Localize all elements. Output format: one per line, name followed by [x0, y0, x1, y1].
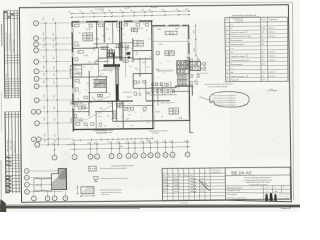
svg-text:09: 09	[79, 93, 81, 95]
svg-text:ГИП: ГИП	[163, 191, 166, 193]
title block left grid	[162, 167, 264, 202]
furniture marks upper rooms	[75, 24, 150, 126]
svg-text:h8: h8	[148, 67, 150, 69]
svg-text:0.6: 0.6	[131, 125, 133, 127]
margin note bottom center	[181, 202, 189, 204]
svg-text:нв 14: нв 14	[6, 98, 10, 100]
svg-text:600: 600	[71, 143, 74, 145]
entrance vestibule	[70, 66, 82, 77]
svg-text:h-2,50 пол: h-2,50 пол	[268, 71, 275, 73]
svg-text:h8: h8	[110, 103, 112, 105]
sheet top edge	[40, 2, 293, 200]
sanitary cluster A right room	[176, 61, 189, 74]
schedule table grid	[225, 17, 288, 82]
title block designation	[225, 170, 290, 176]
title block signature rows	[163, 178, 204, 193]
svg-text:41.4Т: 41.4Т	[125, 8, 131, 10]
column circles pair	[123, 47, 134, 62]
svg-text:12.00: 12.00	[155, 111, 160, 113]
svg-text:2.1: 2.1	[92, 97, 94, 99]
windows on outer walls	[71, 19, 191, 108]
svg-text:нв 14: нв 14	[5, 96, 9, 98]
svg-text:3.2: 3.2	[126, 23, 128, 25]
svg-text:240: 240	[161, 9, 164, 11]
svg-text:4.60: 4.60	[173, 109, 176, 111]
detail axis bubbles left	[24, 168, 63, 194]
sheet mark beside cloud	[268, 89, 277, 91]
svg-text:09: 09	[130, 66, 132, 68]
top dimension chain lines	[68, 9, 190, 18]
svg-text:Стадия: Стадия	[265, 187, 270, 189]
svg-text:09: 09	[117, 30, 119, 32]
scan bottom edge shadow	[0, 204, 300, 208]
svg-text:300: 300	[274, 191, 277, 193]
svg-text:Примечание: Примечание	[269, 19, 278, 21]
svg-text:240: 240	[101, 11, 104, 13]
svg-text:h8: h8	[104, 125, 106, 127]
svg-text:Моечная комната: Моечная комната	[231, 64, 243, 66]
svg-text:600: 600	[140, 141, 143, 143]
svg-text:h-2,50 пол: h-2,50 пол	[268, 52, 275, 54]
svg-text:11,8: 11,8	[261, 44, 264, 46]
paper speckle noise	[23, 15, 287, 197]
svg-text:3.2: 3.2	[103, 69, 105, 71]
drawing frame border	[19, 5, 291, 205]
svg-text:8: 8	[47, 198, 48, 200]
svg-text:12: 12	[134, 28, 136, 30]
svg-text:2.05: 2.05	[157, 29, 161, 31]
annotation text below plan	[93, 129, 167, 135]
title block outer	[162, 167, 290, 200]
svg-text:12.8: 12.8	[76, 73, 80, 75]
svg-text:творческая мастер.: творческая мастер.	[279, 199, 291, 201]
axis bubbles bottom row	[52, 139, 190, 160]
svg-text:Формат А2: Формат А2	[281, 207, 292, 210]
svg-text:кирпичом: кирпичом	[152, 133, 159, 135]
svg-text:об: об	[117, 126, 119, 128]
svg-text:1,2: 1,2	[262, 75, 264, 77]
svg-text:240: 240	[141, 10, 144, 12]
title block logo stamp	[264, 193, 290, 202]
schedule table row texts	[226, 24, 276, 82]
svg-text:Подп. и дата: Подп. и дата	[10, 140, 12, 151]
svg-text:Согласовано зам.нач.: Согласовано зам.нач.	[6, 32, 8, 52]
svg-text:1.1: 1.1	[86, 126, 88, 128]
svg-text:12: 12	[79, 111, 81, 113]
svg-text:7,22: 7,22	[261, 56, 264, 58]
svg-text:240: 240	[90, 11, 93, 13]
scan left edge marks	[0, 24, 6, 212]
svg-text:12: 12	[226, 80, 228, 82]
svg-text:0.00: 0.00	[156, 69, 160, 71]
svg-text:600: 600	[184, 140, 187, 142]
right dimension chain	[193, 25, 196, 56]
svg-text:1.4: 1.4	[149, 56, 151, 58]
svg-text:Заделка дверного проема: Заделка дверного проема	[149, 130, 168, 132]
svg-text:17.40: 17.40	[87, 34, 91, 36]
svg-text:9: 9	[54, 198, 55, 200]
format note bottom right	[281, 207, 292, 210]
svg-text:4.60: 4.60	[169, 51, 172, 53]
svg-text:5В.24-АС: 5В.24-АС	[231, 170, 252, 175]
svg-text:600: 600	[116, 142, 119, 144]
schedule table title	[228, 14, 260, 17]
room area texts	[76, 27, 185, 121]
svg-text:240: 240	[108, 11, 111, 13]
svg-text:600: 600	[94, 142, 97, 144]
svg-text:помещения: помещения	[235, 21, 243, 23]
svg-text:1.88: 1.88	[173, 112, 176, 114]
svg-text:нв 14: нв 14	[5, 84, 9, 86]
svg-text:4.1: 4.1	[106, 28, 109, 30]
svg-text:4.6: 4.6	[143, 62, 146, 64]
note text below schedule table	[205, 84, 234, 89]
title block object name	[227, 187, 242, 196]
svg-text:8: 8	[120, 106, 121, 108]
svg-text:нв 14: нв 14	[5, 93, 9, 95]
svg-text:2.1: 2.1	[123, 34, 125, 36]
svg-text:7.9: 7.9	[128, 115, 131, 117]
svg-text:05.98: 05.98	[200, 188, 204, 190]
svg-text:0.6: 0.6	[137, 70, 139, 72]
svg-text:0.6: 0.6	[185, 57, 187, 59]
svg-text:h-2,60 пол: h-2,60 пол	[268, 28, 275, 30]
svg-text:Выполняемая документация разме: Выполняемая документация размещена	[205, 84, 233, 86]
block divider wall	[152, 21, 155, 129]
svg-text:Подп: Подп	[184, 175, 187, 177]
left margin table A	[4, 11, 21, 100]
svg-text:пр: пр	[88, 61, 90, 63]
legend symbol 3 hatched detail	[77, 186, 122, 197]
svg-text:0.6: 0.6	[143, 111, 145, 113]
svg-text:14: 14	[187, 154, 189, 156]
svg-text:2.1: 2.1	[144, 84, 147, 86]
svg-text:Инв. № подлинника: Инв. № подлинника	[8, 34, 11, 51]
svg-text:0.6: 0.6	[135, 54, 137, 56]
svg-text:272.81.98: 272.81.98	[95, 9, 105, 11]
svg-text:12,8: 12,8	[261, 40, 264, 42]
svg-text:09: 09	[111, 118, 113, 120]
sanitary annex protrusion	[189, 61, 200, 70]
interior walls horizontal	[72, 41, 193, 122]
plan bottom wall left block	[73, 128, 154, 131]
svg-text:взам.: взам.	[6, 72, 8, 77]
svg-text:2.63: 2.63	[87, 37, 90, 39]
svg-text:h=3: h=3	[159, 44, 162, 46]
schedule table header texts	[226, 18, 278, 23]
level annotation right room	[157, 70, 174, 72]
svg-text:2.1: 2.1	[121, 103, 123, 105]
svg-text:05.98: 05.98	[200, 191, 204, 193]
svg-text:1.1: 1.1	[160, 63, 162, 65]
svg-text:АС-15: АС-15	[6, 170, 11, 173]
room label boxes	[78, 27, 179, 115]
svg-text:12,4: 12,4	[262, 79, 265, 81]
svg-text:h-2,50 пол: h-2,50 пол	[268, 56, 275, 58]
svg-text:16,30: 16,30	[261, 28, 265, 30]
svg-text:09: 09	[121, 116, 123, 118]
svg-text:1200: 1200	[171, 33, 175, 35]
svg-text:600: 600	[169, 141, 172, 143]
stair flight 2 treads	[177, 75, 188, 85]
door arcs	[91, 47, 197, 122]
svg-text:Б: Б	[26, 177, 27, 179]
svg-text:240: 240	[130, 10, 133, 12]
svg-text:17,4: 17,4	[262, 72, 265, 74]
svg-text:об: об	[97, 24, 99, 26]
svg-text:09: 09	[101, 92, 103, 94]
sanitary cluster B lower	[146, 83, 190, 105]
svg-text:h-2,50 пол: h-2,50 пол	[268, 60, 275, 62]
svg-text:240: 240	[148, 10, 151, 12]
svg-text:0.6: 0.6	[102, 36, 104, 38]
svg-text:240: 240	[79, 11, 82, 13]
svg-text:6.3: 6.3	[104, 48, 106, 50]
svg-text:1: 1	[157, 53, 158, 55]
svg-text:согласно котировок замеров: согласно котировок замеров	[208, 86, 228, 88]
svg-text:240: 240	[175, 9, 178, 11]
axis bubbles left column	[30, 20, 73, 147]
svg-text:600: 600	[108, 142, 111, 144]
svg-text:14.30: 14.30	[138, 42, 142, 44]
thick core cross wall	[103, 64, 124, 70]
svg-text:Лист: Лист	[274, 187, 277, 189]
svg-text:Подпись и дата: Подпись и дата	[13, 40, 15, 53]
svg-text:Л-1: Л-1	[117, 84, 120, 86]
detail body AC-15 plan fragment	[34, 178, 52, 191]
svg-text:нв 14: нв 14	[5, 82, 9, 84]
bathroom cluster upper	[116, 43, 133, 58]
svg-text:4,0: 4,0	[261, 36, 263, 38]
left margin table B	[5, 112, 22, 194]
svg-text:12.05: 12.05	[126, 108, 131, 110]
lower left fixtures	[74, 104, 101, 127]
svg-text:h8: h8	[95, 60, 97, 62]
svg-text:2.1: 2.1	[110, 71, 112, 73]
svg-text:8.6: 8.6	[100, 108, 103, 110]
svg-text:Демонтаж дверного проема: Демонтаж дверного проема	[93, 130, 113, 132]
svg-text:Операторская абонентская: Операторская абонентская	[230, 60, 249, 62]
svg-text:Листов: Листов	[282, 187, 286, 189]
svg-text:2,60: 2,60	[261, 32, 264, 34]
svg-text:3.2: 3.2	[121, 45, 123, 47]
svg-text:Дата: Дата	[189, 175, 192, 177]
svg-text:4800: 4800	[119, 146, 123, 148]
svg-text:2.1: 2.1	[85, 90, 87, 92]
svg-text:нв 14: нв 14	[5, 91, 9, 93]
svg-text:1.4: 1.4	[100, 113, 102, 115]
svg-text:49.8: 49.8	[87, 39, 90, 41]
svg-text:10: 10	[64, 198, 66, 200]
svg-text:Помещение: Помещение	[231, 80, 240, 82]
plan bottom wall right room	[153, 119, 190, 121]
annex callout symbols	[197, 62, 208, 75]
small dark duct box	[126, 52, 130, 55]
svg-text:с: с	[182, 34, 183, 36]
svg-text:Е: Е	[26, 184, 27, 186]
interior walls vertical	[88, 21, 193, 130]
title block change-log texts	[163, 172, 207, 178]
svg-text:Взам. инв. №: Взам. инв. №	[13, 141, 16, 152]
svg-text:Составлено по: Составлено по	[211, 170, 221, 172]
svg-text:05.98: 05.98	[200, 178, 204, 180]
svg-text:Площ.: Площ.	[261, 19, 266, 21]
svg-text:3.2: 3.2	[130, 48, 132, 50]
svg-text:3.2: 3.2	[109, 93, 111, 95]
svg-text:4.28: 4.28	[179, 118, 183, 120]
svg-text:помещение 1 этаж: помещение 1 этаж	[227, 190, 240, 192]
svg-text:ТОО Проектно-сметное бюро: ТОО Проектно-сметное бюро	[227, 198, 246, 200]
svg-text:600: 600	[162, 141, 165, 143]
legend symbol 1	[89, 166, 127, 171]
svg-text:4: 4	[266, 191, 267, 193]
svg-text:12: 12	[128, 111, 130, 113]
svg-text:240: 240	[119, 10, 122, 12]
svg-text:2.1: 2.1	[148, 39, 150, 41]
sanitary fixtures annex	[184, 59, 199, 84]
svg-text:600: 600	[132, 142, 135, 144]
svg-text:р2: р2	[147, 122, 149, 124]
svg-text:Реконструкция: Реконструкция	[227, 194, 237, 196]
svg-text:6.3: 6.3	[98, 116, 101, 118]
svg-text:обозначения: обозначения	[101, 194, 110, 196]
svg-text:Секция быт. помещ. с РУ: Секция быт. помещ. с РУ	[230, 32, 248, 34]
stair flight 1 treads	[93, 79, 106, 87]
corridor extra lines	[98, 57, 180, 101]
svg-text:Операторская абонент. обмен: Операторская абонент. обмен	[230, 36, 251, 38]
svg-text:10,2: 10,2	[261, 60, 264, 62]
svg-text:Инв. № подл.: Инв. № подл.	[6, 139, 9, 151]
plan clutter marks	[77, 22, 199, 128]
svg-text:12,4: 12,4	[262, 64, 265, 66]
svg-text:1.1: 1.1	[163, 73, 165, 75]
svg-text:Орлов: Орлов	[174, 191, 179, 193]
svg-text:Инв. подл.: Инв. подл.	[181, 202, 189, 204]
paper tone blotches	[29, 8, 291, 191]
svg-text:41-44.1: 41-44.1	[151, 7, 159, 9]
svg-text:0.6: 0.6	[77, 52, 79, 54]
svg-text:1.1: 1.1	[143, 23, 145, 25]
annotation leader texts	[70, 96, 112, 122]
cloud callout revision bubble	[199, 91, 249, 107]
svg-text:600: 600	[125, 142, 128, 144]
svg-text:h-2,60 пол: h-2,60 пол	[268, 32, 275, 34]
svg-text:нв 14: нв 14	[5, 89, 9, 91]
svg-text:09: 09	[79, 83, 81, 85]
plan outer wall top right room	[152, 25, 190, 27]
svg-text:2.30: 2.30	[95, 39, 99, 41]
svg-text:Нежилые помещения жилого дома: Нежилые помещения жилого дома по	[245, 177, 272, 179]
title block approval scribble	[199, 180, 210, 191]
detail axis bubbles bottom	[31, 191, 67, 201]
svg-text:Зал: Зал	[231, 72, 234, 74]
svg-text:т.8: т.8	[77, 99, 79, 101]
svg-text:600: 600	[87, 143, 90, 145]
detail hatched wall section	[45, 167, 90, 190]
svg-text:Зал: Зал	[230, 52, 233, 54]
svg-text:09: 09	[161, 116, 163, 118]
bottom dimension chains	[51, 137, 190, 150]
left dimension chain lines	[43, 17, 59, 146]
svg-text:об: об	[108, 38, 110, 40]
title block wide col text	[211, 170, 221, 174]
svg-text:обмерам БТИ: обмерам БТИ	[211, 172, 220, 174]
legend symbol 2	[93, 176, 128, 181]
svg-text:Наименование: Наименование	[233, 19, 244, 21]
svg-text:h8: h8	[146, 30, 148, 32]
svg-text:12.05: 12.05	[83, 108, 88, 110]
svg-text:17.40: 17.40	[86, 29, 91, 31]
svg-text:7: 7	[33, 198, 34, 200]
svg-text:3.4: 3.4	[118, 49, 121, 51]
stair core spine walls	[113, 21, 123, 101]
plan outer wall top	[72, 21, 153, 23]
svg-text:2.1: 2.1	[78, 33, 80, 35]
svg-text:h-2,50 пол: h-2,50 пол	[268, 75, 275, 77]
svg-text:1.1: 1.1	[167, 61, 169, 63]
svg-text:нв 14: нв 14	[5, 86, 9, 88]
svg-text:240: 240	[185, 9, 188, 11]
svg-text:17.15: 17.15	[138, 28, 143, 30]
svg-text:600: 600	[154, 141, 157, 143]
svg-text:0.6: 0.6	[103, 57, 105, 59]
svg-text:2400: 2400	[146, 140, 150, 142]
plan outer wall left	[72, 22, 74, 132]
svg-text:3.2: 3.2	[107, 115, 109, 117]
svg-text:Заделка дверного пр.: Заделка дверного пр.	[160, 102, 175, 104]
svg-text:Помещение охраны: Помещение охраны	[230, 44, 244, 46]
svg-text:установка перегородки: установка перегородки	[96, 132, 112, 134]
svg-text:8: 8	[169, 54, 170, 56]
svg-text:Зал: Зал	[230, 28, 233, 30]
svg-text:б: б	[107, 54, 108, 56]
wc cell pack upper	[107, 50, 130, 59]
title block description	[244, 177, 273, 186]
title block stage cells	[225, 185, 291, 194]
svg-text:Секция быт. помещ. с РУ: Секция быт. помещ. с РУ	[230, 56, 248, 58]
legend header	[111, 165, 133, 167]
svg-text:12.05: 12.05	[127, 97, 132, 99]
svg-text:12.05: 12.05	[83, 55, 88, 57]
svg-text:4.2: 4.2	[100, 95, 102, 97]
svg-text:h-2,60 пол: h-2,60 пол	[268, 36, 275, 38]
plan outer wall right	[187, 25, 193, 133]
bathroom cluster middle	[134, 81, 149, 96]
top dimension annotations	[95, 7, 159, 11]
title block org text	[227, 198, 246, 200]
svg-text:0.6: 0.6	[83, 66, 85, 68]
svg-text:Секция быт. помещ. с РУ: Секция быт. помещ. с РУ	[231, 76, 249, 78]
svg-text:2н: 2н	[138, 45, 140, 47]
svg-text:17,4: 17,4	[261, 52, 264, 54]
svg-text:Моечная комната: Моечная комната	[230, 40, 242, 42]
svg-text:12: 12	[109, 24, 111, 26]
